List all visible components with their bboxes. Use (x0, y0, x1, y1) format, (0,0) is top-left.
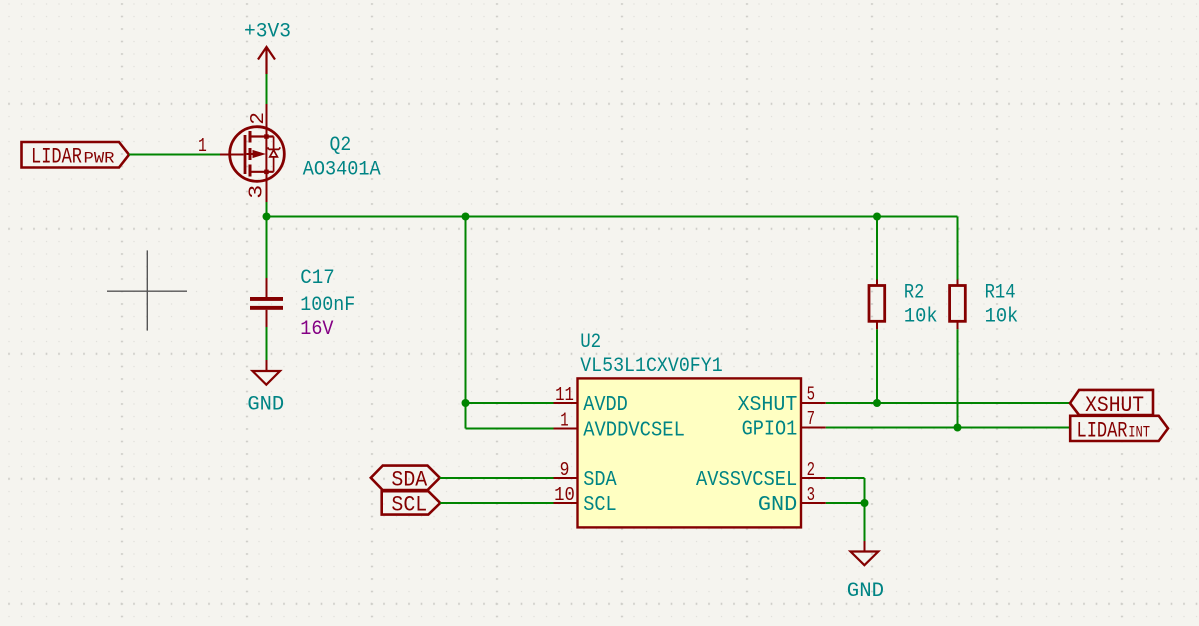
resistor R2 (869, 217, 938, 404)
Q2 pin 3 (drain) stub (266, 173, 268, 203)
Q2 channel bars (249, 131, 252, 143)
svg-text:1: 1 (198, 135, 207, 157)
svg-text:C17: C17 (300, 267, 335, 290)
svg-text:1: 1 (560, 410, 568, 432)
svg-text:XSHUT: XSHUT (738, 393, 798, 417)
R14 top pin (957, 280, 959, 286)
wire SDA to pin 9 (440, 477, 554, 479)
svg-text:16V: 16V (300, 318, 334, 341)
svg-text:XSHUT: XSHUT (1085, 393, 1144, 418)
svg-text:10: 10 (554, 484, 575, 506)
junction at AVDD drop (462, 213, 470, 221)
R14 top wire (957, 217, 959, 280)
svg-text:SDA: SDA (391, 467, 428, 492)
global label SCL (382, 491, 441, 517)
junction at R14 bottom on LIDAR_INT (954, 424, 962, 432)
C17 bottom plate (250, 306, 283, 310)
svg-text:R14: R14 (985, 281, 1016, 304)
Q2 source link (250, 171, 274, 173)
Q2 drain link (250, 135, 274, 137)
R2 bottom pin (876, 321, 878, 329)
U2 pin 10 stub (554, 502, 578, 504)
C17 top plate (250, 297, 283, 301)
Q2 internal junction dots (264, 134, 269, 139)
svg-text:GND: GND (847, 580, 884, 603)
Q2 body diode (268, 137, 281, 172)
svg-text:AO3401A: AO3401A (303, 158, 382, 181)
svg-text:LIDAR: LIDAR (31, 145, 82, 170)
global label LIDAR_PWR (22, 142, 130, 170)
transistor Q2 AO3401A (198, 104, 381, 202)
svg-text:AVDD: AVDD (583, 393, 628, 417)
U2 body (578, 378, 802, 527)
wire XSHUT net (826, 402, 1070, 404)
Q2 channel arrow (253, 150, 267, 158)
U2 pin 1 stub (554, 428, 578, 430)
svg-text:2: 2 (807, 459, 815, 481)
R14 body (950, 286, 966, 322)
svg-text:3: 3 (246, 185, 268, 199)
U2 pin 7 stub (802, 427, 826, 429)
wire SCL to pin 10 (440, 502, 553, 504)
IC U2 VL53L1CXV0FY1 (554, 331, 826, 527)
wire pin 3 GND to node (826, 502, 865, 504)
svg-text:7: 7 (807, 408, 815, 430)
svg-text:Q2: Q2 (330, 134, 352, 157)
junction at GND node (861, 499, 869, 507)
Q2 pin 1 (gate) stub (220, 154, 244, 156)
wire LIDAR_INT net (826, 427, 1070, 429)
Q2 body circle (230, 127, 285, 182)
svg-text:SCL: SCL (583, 493, 617, 517)
svg-text:GND: GND (758, 493, 797, 517)
capacitor C17 (250, 267, 355, 341)
svg-text:5: 5 (807, 383, 815, 405)
junction at R2 bottom on XSHUT (873, 399, 881, 407)
wire to pin 11 AVDD (466, 402, 554, 404)
svg-text:3: 3 (807, 484, 815, 506)
svg-text:U2: U2 (580, 331, 601, 354)
wire GND node down (864, 503, 866, 541)
junction at R2 top (873, 213, 881, 221)
R2 top wire (876, 217, 878, 280)
U2 pin 2 stub (802, 477, 826, 479)
wire C17 to GND (266, 327, 268, 360)
global label LIDAR_INT (1070, 416, 1168, 444)
svg-text:GND: GND (247, 394, 284, 417)
C17 top pin (266, 278, 268, 297)
U2 pin 5 stub (802, 402, 826, 404)
wire main horizontal bus (267, 216, 958, 218)
svg-text:PWR: PWR (84, 150, 115, 168)
U2 pin 3 stub (802, 502, 826, 504)
junction at AVDD tee (462, 399, 470, 407)
Q2 middle link (247, 153, 254, 155)
R2 body (869, 286, 885, 322)
R14 bottom pin (957, 321, 959, 329)
svg-text:R2: R2 (904, 281, 924, 304)
wire Q2 drain to main node (266, 202, 268, 217)
R2 bottom wire (876, 329, 878, 403)
junction at Q2 drain node (263, 213, 271, 221)
svg-text:INT: INT (1128, 424, 1150, 442)
resistor R14 (950, 217, 1019, 428)
cursor crosshair (107, 250, 187, 330)
wire AVDD vertical drop (465, 217, 467, 429)
Q2 source-drain vertical (265, 137, 267, 172)
ground symbol below C17 (247, 360, 284, 417)
wire node to C17 (266, 217, 268, 279)
svg-text:100nF: 100nF (300, 294, 355, 317)
svg-text:GPIO1: GPIO1 (742, 418, 798, 442)
R14 bottom wire (957, 329, 959, 427)
svg-text:11: 11 (555, 384, 574, 406)
R2 top pin (876, 280, 878, 286)
svg-text:AVDDVCSEL: AVDDVCSEL (583, 419, 685, 443)
ground symbol below U2 (847, 541, 884, 603)
Q2 gate bar (244, 135, 247, 174)
svg-text:VL53L1CXV0FY1: VL53L1CXV0FY1 (580, 355, 723, 378)
U2 pin 11 stub (554, 402, 578, 404)
global label XSHUT (1070, 390, 1153, 418)
U2 pin 9 stub (554, 477, 578, 479)
svg-text:10k: 10k (985, 306, 1019, 329)
wire LIDAR_PWR to Q2 gate (129, 154, 220, 156)
svg-text:SCL: SCL (391, 493, 427, 518)
global label SDA (371, 466, 440, 493)
svg-text:10k: 10k (904, 306, 938, 329)
Q2 pin 2 (source) stub (266, 104, 268, 137)
svg-text:AVSSVCSEL: AVSSVCSEL (696, 468, 797, 492)
svg-text:+3V3: +3V3 (244, 21, 291, 44)
svg-text:SDA: SDA (583, 468, 617, 492)
svg-text:9: 9 (560, 459, 570, 481)
C17 bottom pin (266, 310, 268, 327)
power symbol +3V3 (258, 47, 275, 74)
wire to pin 1 AVDDVCSEL (466, 428, 554, 430)
svg-text:2: 2 (247, 112, 269, 125)
wire +3V3 to Q2 drain (pin 2) (266, 74, 268, 104)
wire corner down to GND node (864, 478, 866, 503)
svg-text:LIDAR: LIDAR (1077, 419, 1128, 444)
wire pin 2 AVSSVCSEL to corner (826, 477, 865, 479)
